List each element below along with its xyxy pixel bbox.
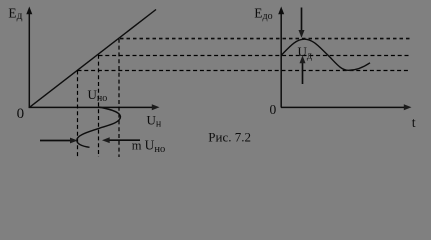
horizontal dashed line top y=38.6 [120, 38, 410, 40]
left horizontal axis arrowhead [152, 104, 160, 110]
vertical dashed line x=119 [118, 39, 120, 157]
vertical dashed line x=98 [98, 55, 100, 157]
output sinusoid [282, 39, 371, 70]
horizontal dashed line bottom y=70 [78, 70, 411, 72]
right horizontal axis arrowhead [404, 104, 412, 110]
figure: two coordinated graphs, Rис. 7.2 [0, 0, 431, 168]
up arrow to middle dashed line [302, 62, 304, 84]
input sinusoid below axis (rotated sine) [77, 107, 121, 147]
svg-text:0: 0 [17, 106, 25, 122]
right graph vertical axis [280, 13, 282, 108]
left graph horizontal axis [29, 106, 153, 108]
left graph vertical axis [28, 13, 30, 108]
svg-text:t: t [412, 116, 416, 131]
down arrow to top dashed line [301, 8, 303, 32]
vertical dashed line x=77 [77, 71, 79, 158]
left horizontal arrow pointing right [40, 140, 72, 142]
right vertical axis arrowhead [278, 7, 284, 15]
right horizontal arrow pointing left [108, 139, 140, 141]
transfer characteristic diagonal line [30, 10, 157, 108]
svg-text:Рис. 7.2: Рис. 7.2 [208, 130, 251, 145]
horizontal dashed line middle y=55 [99, 55, 411, 57]
right graph horizontal axis [281, 106, 405, 108]
left vertical axis arrowhead [26, 7, 32, 15]
svg-text:0: 0 [270, 102, 277, 117]
